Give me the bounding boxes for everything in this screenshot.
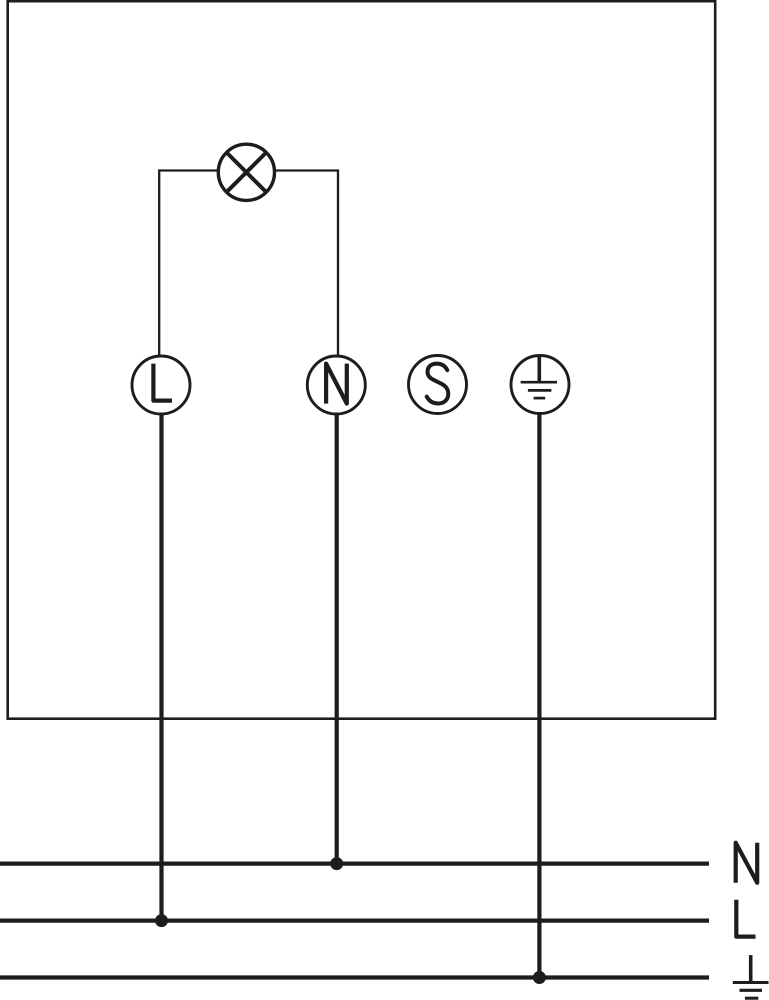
wire N down [335, 413, 339, 863]
terminal S [409, 356, 467, 414]
wire PE down [537, 413, 541, 978]
junction L [155, 914, 168, 927]
device box [8, 1, 716, 719]
wire [275, 171, 338, 358]
junction PE [533, 971, 546, 984]
terminal L [132, 356, 190, 414]
wire [159, 171, 218, 357]
wire L down [159, 413, 163, 921]
junction N [330, 857, 343, 870]
label L [736, 900, 755, 937]
N bus [0, 861, 709, 865]
earth symbol [733, 955, 769, 998]
label N [736, 843, 758, 883]
terminal PE [511, 356, 569, 414]
terminal N [307, 356, 365, 414]
PE bus [0, 975, 709, 979]
lamp E1 [218, 144, 274, 200]
L bus [0, 918, 709, 922]
